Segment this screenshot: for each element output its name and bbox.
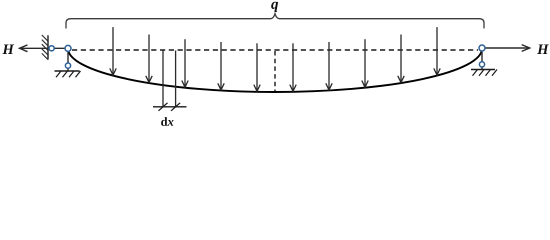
left wall hatching (42, 35, 48, 60)
left ground hatching (56, 71, 81, 77)
left H force arrow (20, 45, 49, 52)
left node circle (65, 45, 71, 51)
load arrow 2 (146, 35, 152, 83)
left vertical link (67, 49, 69, 72)
load arrow 9 (398, 35, 404, 83)
dashed center sag line (274, 51, 276, 91)
right H force arrow (482, 45, 530, 52)
dx element line 1 (162, 51, 164, 107)
dx element line 2 (175, 51, 177, 107)
brace for load q (66, 14, 484, 29)
load arrow 6 (290, 43, 296, 91)
left ground line (55, 70, 80, 72)
left wall pin circle (49, 46, 54, 51)
load arrow 7 (326, 42, 332, 90)
dx dimension tick right (171, 103, 180, 111)
left lower pin circle (65, 63, 70, 68)
label q (271, 2, 278, 12)
right lower pin circle (479, 62, 484, 67)
load arrow 8 (362, 39, 368, 87)
label H left (2, 45, 14, 54)
left horizontal link (48, 47, 66, 49)
right vertical link (481, 48, 483, 70)
load arrow 3 (182, 39, 188, 87)
dashed chord line (72, 49, 478, 51)
load arrow 4 (218, 42, 224, 90)
load arrow 1 (110, 27, 116, 75)
dx dimension tick left (159, 103, 168, 111)
dx dimension line (153, 106, 187, 108)
load arrow 10 (434, 27, 440, 75)
right node circle (479, 45, 485, 51)
left wall line (47, 35, 49, 59)
right ground line (471, 69, 495, 71)
cable curve (68, 49, 482, 93)
load arrow 5 (254, 43, 260, 91)
label H right (537, 45, 549, 54)
right ground hatching (473, 70, 498, 76)
label dx (161, 117, 173, 126)
